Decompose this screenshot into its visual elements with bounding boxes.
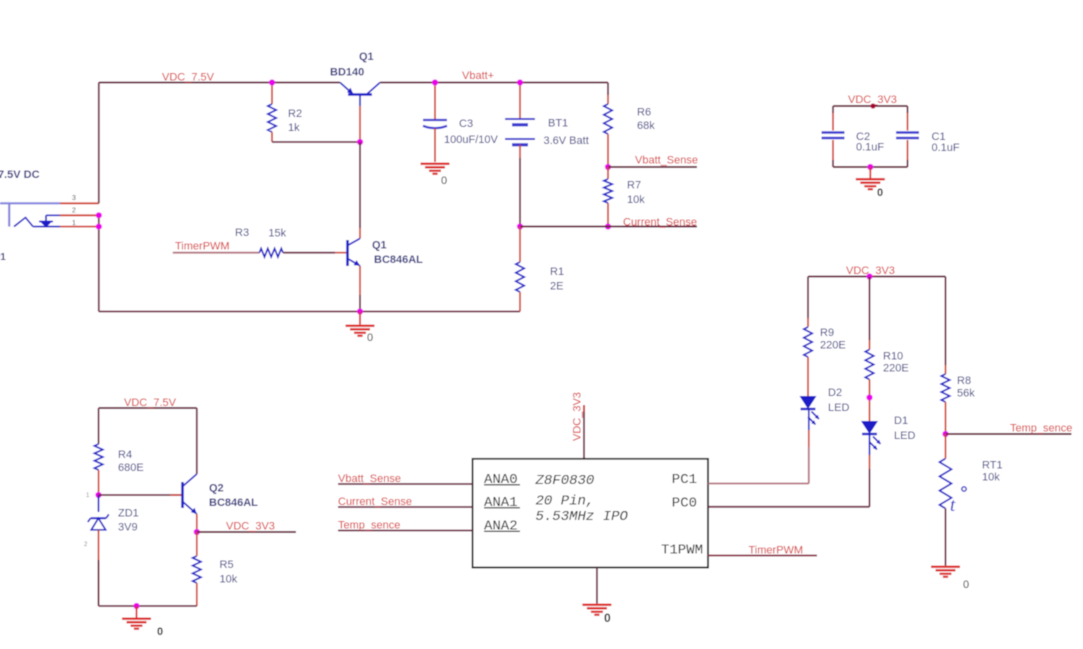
- svg-text:Current_Sense: Current_Sense: [338, 496, 412, 508]
- svg-text:VDC_7.5V: VDC_7.5V: [124, 397, 177, 409]
- svg-text:0: 0: [604, 611, 611, 625]
- wire node to Q3 collector: [348, 142, 361, 246]
- label D1 LED: [894, 415, 915, 442]
- wire left side of cap block: [832, 106, 834, 167]
- svg-text:3V9: 3V9: [118, 522, 138, 534]
- svg-text:0: 0: [157, 626, 163, 638]
- wire D1 to PC0 corner: [869, 434, 871, 507]
- label U1: [0, 252, 6, 263]
- pin name ANA2: [484, 519, 520, 535]
- wire R3 to Q3 base: [283, 252, 348, 254]
- svg-text:220E: 220E: [820, 340, 846, 352]
- wire rail to R8: [945, 277, 947, 375]
- svg-text:10k: 10k: [627, 194, 645, 206]
- net label TimerPWM (MCU): [749, 545, 804, 557]
- label R8 56k: [957, 375, 975, 400]
- pin name PC1: [672, 472, 697, 488]
- wire R6 to Vbatt_Sense node: [607, 134, 609, 167]
- wire Vbatt_Sense node to R7: [607, 167, 609, 179]
- wire rail to Q2 collector: [196, 408, 198, 474]
- label BC846AL (Q2): [209, 497, 258, 509]
- net label VDC_3V3 (led block): [846, 265, 895, 277]
- resistor R3: [259, 249, 283, 257]
- net label Temp_sence: [1010, 423, 1072, 435]
- svg-text:BD140: BD140: [330, 67, 364, 79]
- svg-text:2E: 2E: [550, 281, 563, 293]
- wire VDC_3V3 rail (cap block): [833, 105, 908, 107]
- svg-text:Q1: Q1: [359, 51, 374, 63]
- svg-text:BC846AL: BC846AL: [374, 254, 423, 266]
- wire bottom of cap block: [833, 166, 908, 168]
- ground 0 below cap block: [856, 167, 885, 199]
- net label VDC_3V3 (regulator out): [226, 521, 275, 533]
- wire MCU ground: [596, 568, 598, 604]
- pin 3 of U1: [60, 195, 99, 203]
- net label Current_Sense (MCU): [338, 496, 412, 508]
- pin 1 of U1: [60, 220, 99, 227]
- svg-text:Q1: Q1: [372, 240, 387, 252]
- label R2 1k: [288, 108, 302, 134]
- wire VDC_3V3 rail (led block): [808, 276, 946, 278]
- svg-text:68k: 68k: [637, 120, 655, 132]
- svg-text:LED: LED: [894, 430, 915, 442]
- wire D2 to PC1 corner: [808, 409, 810, 484]
- svg-text:100uF/10V: 100uF/10V: [444, 134, 498, 146]
- net label Current_Sense: [623, 217, 697, 229]
- wire C3 to ground: [434, 129, 436, 163]
- zener diode ZD1: [88, 514, 109, 529]
- svg-text:Z8F0830: Z8F0830: [535, 473, 595, 489]
- ground 0 below Q3: [346, 312, 375, 345]
- svg-text:Current_Sense: Current_Sense: [623, 217, 697, 229]
- label ZD1 3V9: [118, 508, 139, 534]
- resistor R10: [865, 350, 873, 380]
- svg-text:VDC_3V3: VDC_3V3: [226, 521, 275, 533]
- junction rail/C3: [432, 79, 438, 85]
- svg-text:15k: 15k: [268, 227, 286, 239]
- zener pin number 1: [86, 493, 90, 499]
- junction ground (regulator): [133, 603, 139, 609]
- svg-text:20 Pin,: 20 Pin,: [536, 494, 595, 510]
- label R3 15k: [235, 227, 287, 239]
- resistor R6: [604, 104, 612, 134]
- svg-text:T1PWM: T1PWM: [661, 543, 703, 559]
- junction Vbatt_Sense: [605, 164, 611, 170]
- label Q1 (BC846AL): [372, 240, 387, 252]
- junction Current_Sense: [605, 223, 611, 229]
- label R9 220E: [820, 327, 846, 352]
- svg-text:R1: R1: [550, 266, 564, 278]
- transistor Q1 BD140: [340, 83, 380, 107]
- wire Vbatt_Sense stub: [608, 166, 697, 168]
- svg-text:U1: U1: [0, 252, 6, 263]
- label C1 0.1uF: [932, 131, 960, 154]
- svg-text:0: 0: [877, 187, 883, 199]
- svg-text:BT1: BT1: [548, 118, 568, 130]
- junction BT1/R1/Current_Sense: [517, 223, 523, 229]
- wire TimerPWM to R3: [173, 252, 260, 254]
- svg-text:R3: R3: [235, 227, 249, 239]
- battery BT1: [505, 119, 535, 145]
- junction bottom of cap block: [867, 164, 873, 170]
- junction at pin 1: [96, 224, 102, 230]
- wire left vertical VDC_7.5V to pin3: [98, 83, 100, 204]
- label R10 220E: [883, 351, 909, 375]
- svg-text:0.1uF: 0.1uF: [932, 142, 960, 154]
- net label VDC_3V3 (cap block): [848, 94, 897, 106]
- wire R7 to Current_Sense node: [607, 203, 609, 227]
- junction Q1 base / R2 / Q3 collector: [357, 139, 363, 145]
- wire ANA2 input: [338, 530, 473, 532]
- junction Temp_sence: [942, 431, 948, 437]
- svg-text:R2: R2: [288, 108, 302, 120]
- pin name ANA1: [484, 495, 520, 511]
- label R5 10k: [220, 559, 238, 586]
- svg-text:PC1: PC1: [672, 472, 697, 488]
- svg-text:TimerPWM: TimerPWM: [749, 545, 804, 557]
- thermistor RT1: [940, 459, 967, 517]
- pin name ANA0: [484, 472, 520, 488]
- svg-text:R5: R5: [220, 559, 234, 571]
- svg-text:TimerPWM: TimerPWM: [175, 241, 230, 253]
- svg-text:R4: R4: [118, 449, 132, 461]
- label BC846AL: [374, 254, 423, 266]
- wire node to ZD1: [98, 495, 100, 512]
- junction ground rail at Q3: [357, 308, 363, 314]
- label R1 2E: [550, 266, 564, 293]
- svg-text:Vbatt_Sense: Vbatt_Sense: [338, 473, 401, 485]
- wire rail to R10: [869, 277, 871, 350]
- LED D1: [861, 421, 881, 450]
- ground 0 below MCU: [582, 605, 611, 625]
- svg-text:VDC_7.5V: VDC_7.5V: [162, 72, 215, 84]
- svg-text:2: 2: [72, 208, 76, 215]
- net label TimerPWM: [175, 241, 230, 253]
- wire regulator bottom rail: [99, 605, 197, 607]
- net label Vbatt_Sense (MCU): [338, 473, 401, 485]
- label 7.5V DC: [0, 169, 40, 181]
- wire rail to R9: [807, 277, 809, 328]
- svg-text:R6: R6: [637, 107, 651, 119]
- wire right side of cap block: [907, 106, 909, 167]
- svg-text:0: 0: [367, 332, 373, 344]
- svg-text:C3: C3: [459, 118, 473, 130]
- svg-text:56k: 56k: [957, 388, 975, 400]
- svg-text:VDC_3V3: VDC_3V3: [572, 392, 584, 441]
- wire VDC_3V3 stub: [197, 531, 296, 533]
- svg-text:680E: 680E: [118, 462, 144, 474]
- wire Current_Sense: [520, 226, 697, 228]
- svg-text:3.6V Batt: 3.6V Batt: [544, 135, 589, 147]
- svg-text:Vbatt_Sense: Vbatt_Sense: [635, 155, 698, 167]
- svg-text:5.53MHz IPO: 5.53MHz IPO: [536, 509, 629, 525]
- connector U1 DC power jack symbol: [0, 203, 60, 227]
- transistor Q3 BC846AL: [348, 240, 361, 266]
- capacitor C1: [896, 133, 919, 139]
- svg-text:D1: D1: [894, 415, 908, 427]
- ground 0 below RT1: [931, 567, 969, 591]
- wire left vertical pin2/pin1 to ground rail: [98, 215, 100, 311]
- wire Q3 emitter to ground rail: [359, 266, 361, 312]
- resistor R9: [804, 327, 812, 357]
- svg-text:R10: R10: [883, 351, 903, 363]
- label Q2: [209, 483, 224, 495]
- junction VDC_3V3 node: [194, 529, 200, 535]
- svg-text:220E: 220E: [883, 363, 909, 375]
- resistor R2: [268, 104, 276, 132]
- wire Vbatt+ rail right of Q1: [380, 82, 608, 84]
- ground 0 below C3: [421, 164, 450, 187]
- resistor R1: [516, 262, 524, 292]
- label D2 LED: [828, 387, 849, 414]
- svg-text:0: 0: [441, 175, 447, 187]
- wire VDD to MCU: [583, 405, 585, 459]
- wire rail to R4: [98, 408, 100, 444]
- junction top of cap block: [870, 103, 875, 108]
- wire R4 to base node: [98, 470, 100, 495]
- wire rail to BT1: [519, 83, 521, 120]
- svg-text:ANA2: ANA2: [484, 519, 518, 535]
- net label Vbatt+: [462, 70, 494, 82]
- svg-text:R8: R8: [957, 375, 971, 387]
- junction on D1 branch: [866, 394, 872, 400]
- svg-text:3: 3: [72, 195, 76, 202]
- pin name PC0: [672, 495, 697, 511]
- wire BT1 to current node: [519, 145, 521, 227]
- junction rail/R2: [269, 79, 275, 85]
- svg-text:10k: 10k: [982, 472, 1000, 484]
- svg-text:10k: 10k: [220, 574, 238, 586]
- svg-text:Q2: Q2: [209, 483, 224, 495]
- wire Q2 base: [99, 494, 183, 496]
- wire Temp_sence: [946, 433, 1072, 435]
- resistor R4: [94, 444, 102, 470]
- svg-text:0: 0: [963, 579, 969, 591]
- label R7 10k: [627, 180, 645, 207]
- svg-text:t: t: [950, 495, 956, 516]
- LED D2: [800, 396, 820, 425]
- wire R1 to ground rail: [519, 227, 521, 312]
- wire PC0 to D1 branch: [708, 506, 870, 508]
- wire rail to C3: [434, 83, 436, 121]
- svg-text:0.1uF: 0.1uF: [856, 142, 884, 154]
- wire ZD1 to bottom rail: [98, 530, 100, 606]
- wire T1PWM output: [708, 555, 817, 557]
- label BT1 3.6V Batt: [544, 118, 589, 148]
- wire R9 to D2: [807, 357, 809, 396]
- svg-text:7.5V DC: 7.5V DC: [0, 169, 40, 181]
- junction rail/BT1: [517, 79, 523, 85]
- net label VDC_3V3 (MCU, rotated): [572, 392, 584, 441]
- IC type text Z8F0830 20 Pin 5.53MHz IPO: [535, 473, 629, 525]
- net label VDC_7.5V (regulator): [124, 397, 177, 409]
- label RT1 10k: [982, 460, 1003, 484]
- svg-text:BC846AL: BC846AL: [209, 497, 258, 509]
- capacitor C3: [423, 120, 447, 128]
- label R4 680E: [118, 449, 144, 474]
- wire VDC_7.5V rail (regulator): [99, 407, 197, 409]
- svg-text:LED: LED: [828, 402, 849, 414]
- resistor R8: [941, 374, 949, 402]
- svg-text:RT1: RT1: [982, 460, 1003, 472]
- wire bottom ground rail: [99, 311, 520, 313]
- wire R2 bottom to Q1 base node: [272, 132, 360, 142]
- wire RT1 to ground: [945, 434, 947, 566]
- svg-text:ZD1: ZD1: [118, 508, 139, 520]
- label C2 0.1uF: [856, 131, 884, 154]
- net label Vbatt_Sense: [635, 155, 698, 167]
- transistor Q2 BC846AL: [183, 474, 197, 514]
- svg-text:PC0: PC0: [672, 495, 697, 511]
- label C3 100uF/10V: [444, 118, 498, 146]
- net label VDC_7.5V: [162, 72, 215, 84]
- wire Vbatt+ rail corner down to R6: [607, 83, 609, 105]
- svg-text:R9: R9: [820, 327, 834, 339]
- IC U2 Z8F0830 box: [473, 459, 708, 568]
- wire R10 to D1: [869, 380, 871, 422]
- zener pin number 2: [84, 542, 88, 548]
- wire R8 to Temp node: [945, 402, 947, 434]
- wire Q2 emitter to VDC_3V3 node: [196, 514, 198, 532]
- label BD140: [330, 67, 364, 79]
- svg-text:1: 1: [72, 220, 76, 227]
- svg-text:D2: D2: [828, 387, 842, 399]
- svg-text:Temp_sence: Temp_sence: [1010, 423, 1072, 435]
- wire PC1 to D2 branch: [708, 483, 809, 485]
- wire node to R5 and to bottom rail: [196, 532, 198, 606]
- wire rail to R2: [271, 83, 273, 105]
- junction at pin 2: [96, 212, 102, 218]
- ground 0 below regulator: [122, 606, 163, 638]
- junction R4/ZD1/Q2 base: [95, 492, 101, 498]
- pin name T1PWM: [661, 543, 703, 559]
- capacitor C2: [822, 133, 845, 139]
- label Q1: [359, 51, 374, 63]
- label R6 68k: [637, 107, 655, 133]
- svg-text:ANA1: ANA1: [484, 495, 518, 511]
- pin 2 of U1: [60, 208, 99, 216]
- resistor R7: [604, 179, 612, 203]
- wire ANA1 input: [338, 506, 473, 508]
- svg-text:Temp_sence: Temp_sence: [338, 519, 400, 531]
- svg-text:Vbatt+: Vbatt+: [462, 70, 494, 82]
- junction rail at R10 branch: [866, 273, 872, 279]
- svg-text:1k: 1k: [288, 122, 300, 134]
- wire Q1 base down to node: [359, 106, 361, 142]
- net label Temp_sence (MCU): [338, 519, 400, 531]
- wire VDC_7.5V rail left of Q1: [99, 82, 340, 84]
- svg-text:ANA0: ANA0: [484, 472, 518, 488]
- svg-text:R7: R7: [627, 180, 641, 192]
- wire ANA0 input: [338, 483, 473, 485]
- resistor R5: [193, 556, 201, 583]
